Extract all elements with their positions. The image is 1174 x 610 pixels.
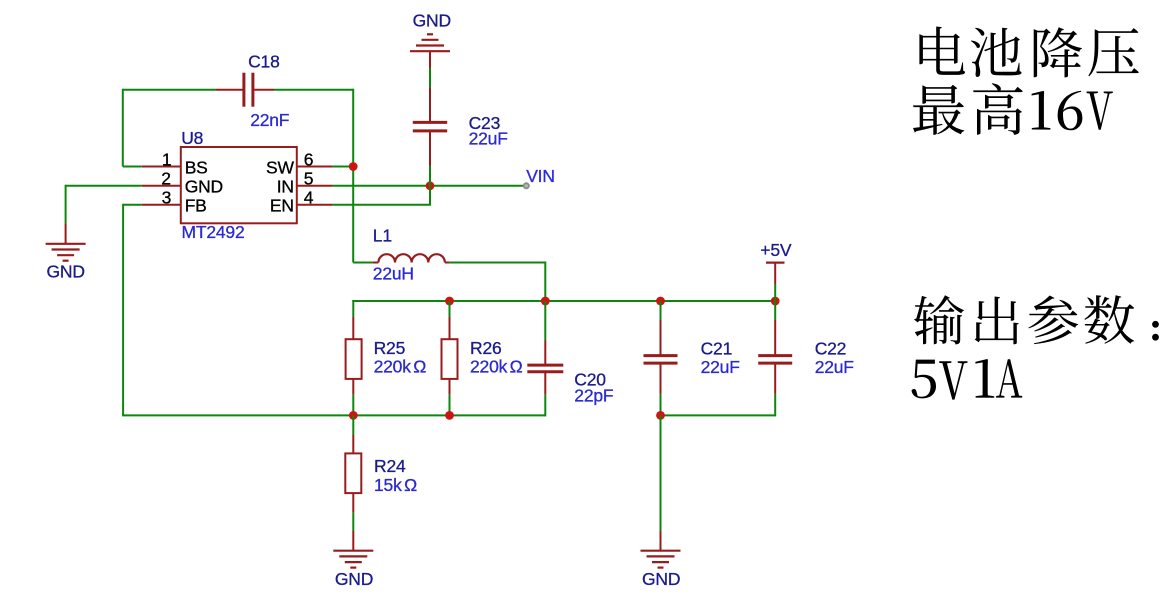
node junction rail/C20/L1 — [541, 297, 550, 306]
svg-text:+5V: +5V — [760, 240, 792, 260]
wire bottom output rail — [661, 414, 776, 416]
svg-text:VIN: VIN — [526, 166, 555, 186]
node junction rail/C22/+5V — [771, 297, 780, 306]
pin 1 BS — [123, 166, 142, 168]
annotation line 2: 最高16V — [913, 83, 1113, 135]
svg-text:SW: SW — [266, 157, 294, 177]
svg-text:GND: GND — [642, 569, 680, 589]
svg-text:C21: C21 — [701, 339, 733, 359]
pin 2 GND wire to left — [142, 185, 181, 187]
svg-text:R26: R26 — [470, 338, 502, 358]
node junction FB/R26 — [445, 411, 454, 420]
svg-text:1: 1 — [162, 149, 172, 169]
wire BS net: C18 left leg — [123, 89, 216, 91]
power flag +5V — [766, 262, 785, 264]
svg-text:2: 2 — [161, 169, 171, 189]
pin 5 IN wire to VIN — [297, 185, 333, 187]
pin 4 EN wire — [297, 204, 333, 206]
svg-text:IN: IN — [277, 177, 294, 197]
node junction FB/R25/R24 — [349, 411, 358, 420]
capacitor C23 — [429, 88, 431, 122]
wire +5V top rail — [352, 300, 775, 302]
wire FB vertical down — [122, 204, 124, 416]
svg-text:EN: EN — [270, 196, 294, 216]
ground GND top (inverted) — [410, 50, 450, 52]
op-amp U8 MT2492 body — [181, 147, 297, 223]
wire C21 to ground — [660, 415, 662, 531]
svg-text:C22: C22 — [815, 339, 847, 359]
wire C18 right to SW vertical — [274, 89, 353, 91]
svg-text:R24: R24 — [374, 456, 406, 476]
node junction rail/R26 — [445, 297, 454, 306]
svg-text:GND: GND — [185, 177, 223, 197]
svg-text:MT2492: MT2492 — [182, 222, 245, 242]
wire SW net vertical — [352, 89, 354, 263]
node IN junction — [426, 181, 435, 190]
svg-text:GND: GND — [413, 11, 451, 31]
net flag VIN — [524, 183, 529, 188]
wire L1 right to output node — [450, 262, 546, 264]
resistor R24 — [352, 415, 354, 435]
ground GND left — [46, 243, 86, 245]
svg-text:220kΩ: 220kΩ — [374, 356, 427, 376]
capacitor C18 — [216, 89, 243, 91]
svg-text:22uF: 22uF — [701, 357, 740, 377]
wire FB bottom rail — [122, 414, 545, 416]
ground GND bottom right — [641, 550, 681, 552]
svg-text:R25: R25 — [374, 338, 406, 358]
svg-text:220kΩ: 220kΩ — [470, 356, 523, 376]
svg-text:FB: FB — [185, 196, 207, 216]
svg-text:GND: GND — [47, 261, 85, 281]
node junction rail/C21 — [656, 297, 665, 306]
capacitor C22 — [774, 301, 776, 320]
annotation line 3: 输出参数： — [914, 295, 1159, 344]
node SW junction — [349, 162, 358, 171]
ground GND bottom left — [333, 550, 373, 552]
resistor R26 — [449, 301, 451, 317]
pin 3 FB wire — [142, 204, 181, 206]
svg-text:GND: GND — [335, 569, 373, 589]
svg-text:22uF: 22uF — [815, 357, 854, 377]
svg-text:22pF: 22pF — [574, 386, 613, 406]
pin 6 SW — [297, 166, 333, 168]
annotation line 1: 电池降压 — [919, 27, 1138, 78]
svg-text:15kΩ: 15kΩ — [374, 475, 417, 495]
svg-text:U8: U8 — [181, 128, 203, 148]
capacitor C21 — [660, 301, 662, 320]
svg-text:L1: L1 — [373, 226, 392, 246]
annotation line 4: 5V1A — [912, 359, 1023, 400]
svg-text:22nF: 22nF — [250, 110, 289, 130]
svg-text:C18: C18 — [248, 52, 280, 72]
resistor R25 — [352, 300, 354, 317]
svg-text:3: 3 — [162, 188, 172, 208]
inductor L1 — [353, 262, 373, 264]
svg-text:22uF: 22uF — [469, 129, 508, 149]
svg-text:BS: BS — [185, 157, 208, 177]
capacitor C20 — [544, 301, 546, 341]
svg-text:22uH: 22uH — [373, 263, 414, 283]
node junction C21/C22/GND — [656, 411, 665, 420]
